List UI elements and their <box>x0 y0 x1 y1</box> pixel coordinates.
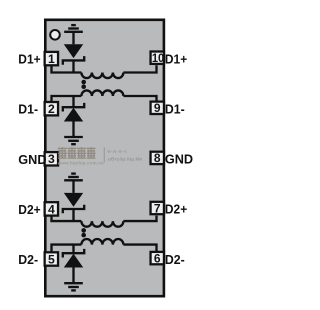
svg-text:6: 6 <box>154 251 161 265</box>
svg-text:D1+: D1+ <box>18 52 41 67</box>
svg-text:.uBrçöµ.ïúµ.Mк: .uBrçöµ.ïúµ.Mк <box>107 157 143 163</box>
svg-text:8: 8 <box>154 151 161 165</box>
svg-text:D2-: D2- <box>165 252 185 267</box>
svg-text:V-A-¥-<: V-A-¥-< <box>107 149 127 155</box>
svg-text:GND: GND <box>165 152 193 167</box>
svg-text:1: 1 <box>48 52 55 66</box>
svg-text:D1+: D1+ <box>165 51 188 66</box>
svg-text:D2-: D2- <box>18 252 38 267</box>
svg-text:2: 2 <box>48 102 55 116</box>
svg-text:GND: GND <box>18 152 46 167</box>
svg-text:D1-: D1- <box>18 102 38 117</box>
svg-text:D2+: D2+ <box>18 202 41 217</box>
svg-text:D2+: D2+ <box>165 202 188 217</box>
svg-text:3: 3 <box>48 152 55 166</box>
svg-text:10: 10 <box>152 51 165 65</box>
svg-text:7: 7 <box>154 201 161 215</box>
svg-text:5: 5 <box>48 252 55 266</box>
svg-text:D1-: D1- <box>165 102 185 117</box>
svg-text:9: 9 <box>154 101 161 115</box>
svg-text:www.hqchip.com.cn: www.hqchip.com.cn <box>57 160 104 165</box>
svg-text:4: 4 <box>48 202 55 216</box>
